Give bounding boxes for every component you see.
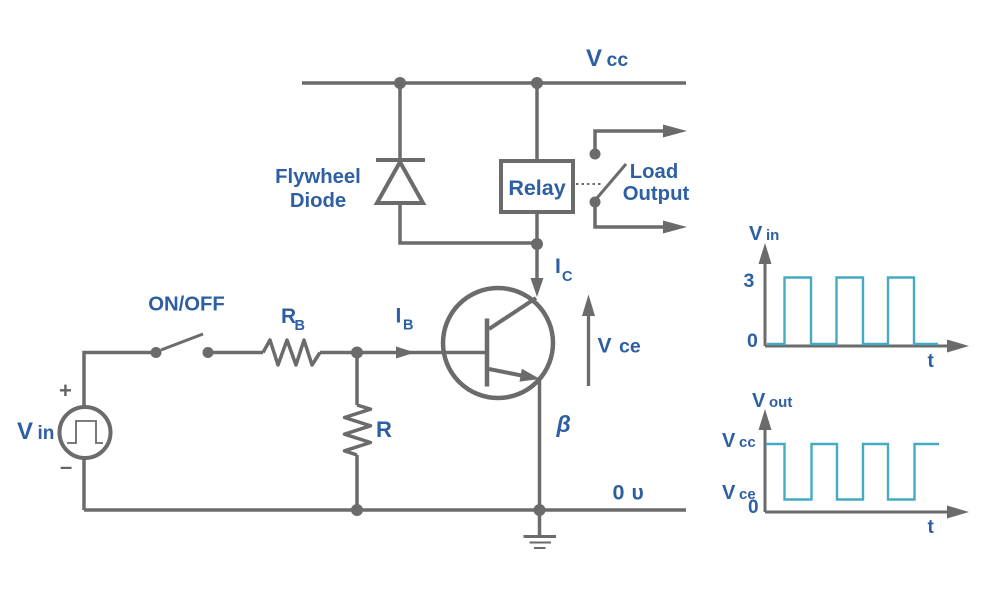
- wire: relay lower: [535, 212, 539, 243]
- graph1 waveform V in: [767, 278, 938, 345]
- source V1 pulse generator: [60, 407, 111, 458]
- resistor RB: [263, 340, 320, 365]
- svg-text:β: β: [556, 411, 571, 437]
- wire: switch to RB: [208, 351, 263, 355]
- switch ON/OFF: [151, 334, 214, 358]
- wire: RB to node: [320, 351, 357, 355]
- wire: diode branch upper: [398, 83, 402, 160]
- node: emitter-rail junction: [534, 504, 546, 516]
- svg-text:υ: υ: [632, 482, 644, 505]
- graph2 label V out: [752, 390, 792, 412]
- node: rail-diode junction: [394, 77, 406, 89]
- label Flywheel Diode: [275, 166, 361, 212]
- arrowhead load lower: [663, 221, 687, 234]
- label V ce: [598, 335, 641, 358]
- relay K1 box: [501, 161, 573, 212]
- node: R-rail junction: [351, 504, 363, 516]
- resistor R: [345, 405, 371, 455]
- label V in: [17, 418, 54, 445]
- graph2 y-axis: [759, 409, 772, 512]
- wire: source to switch: [84, 353, 156, 408]
- svg-text:I: I: [396, 305, 402, 328]
- svg-text:V: V: [752, 390, 766, 412]
- label I_B: [396, 305, 414, 334]
- wire: Vcc top rail: [302, 81, 686, 85]
- graph1 label V in: [749, 223, 779, 245]
- wire: base: [357, 351, 485, 355]
- svg-text:Load: Load: [630, 161, 678, 183]
- svg-text:V: V: [17, 418, 33, 445]
- node: diode-collector junction: [531, 238, 543, 250]
- svg-text:B: B: [403, 318, 413, 334]
- arrowhead I_C down: [531, 278, 544, 297]
- wire: source to 0V rail: [82, 458, 86, 510]
- svg-text:B: B: [295, 318, 305, 334]
- relay switch contacts: [590, 149, 627, 208]
- graph1 y-axis: [759, 243, 772, 346]
- svg-text:V: V: [722, 482, 736, 504]
- graph2 waveform V out: [766, 444, 939, 500]
- svg-text:I: I: [555, 255, 561, 278]
- svg-text:ce: ce: [619, 336, 641, 358]
- svg-text:Relay: Relay: [508, 176, 565, 200]
- svg-text:R: R: [376, 417, 392, 442]
- wire: load output lower: [595, 207, 664, 227]
- wire: R upper lead: [355, 353, 359, 406]
- label 0 v: [613, 481, 644, 505]
- graph2 label V ce: [722, 482, 756, 504]
- svg-text:Diode: Diode: [290, 190, 346, 212]
- svg-text:V: V: [722, 430, 736, 452]
- svg-text:–: –: [60, 454, 72, 479]
- wire: diode branch lower elbow: [400, 203, 537, 243]
- wire: 0V bottom rail: [84, 508, 686, 512]
- wire: collector from junction: [535, 243, 539, 281]
- svg-text:0: 0: [748, 497, 759, 518]
- wire: emitter: [538, 380, 542, 510]
- ground: [524, 510, 557, 548]
- arrowhead I_B: [396, 347, 415, 359]
- svg-text:in: in: [766, 227, 779, 244]
- transistor Q1: [443, 288, 553, 398]
- svg-text:V: V: [586, 45, 602, 72]
- svg-text:Flywheel: Flywheel: [275, 166, 361, 188]
- svg-text:C: C: [562, 269, 573, 285]
- svg-text:ON/OFF: ON/OFF: [148, 294, 225, 316]
- svg-text:in: in: [38, 423, 55, 444]
- wire: load output upper: [595, 131, 664, 149]
- svg-text:V: V: [749, 223, 763, 245]
- graph2 x-axis: [765, 506, 969, 519]
- svg-text:out: out: [769, 394, 792, 411]
- label I_C: [555, 255, 573, 285]
- label V cc: [586, 45, 628, 72]
- dotted link relay to contact: [576, 183, 603, 185]
- wire: relay upper: [535, 83, 539, 161]
- label R_B: [281, 305, 305, 334]
- arrow V_ce: [582, 295, 595, 387]
- svg-text:cc: cc: [739, 434, 756, 451]
- svg-text:0: 0: [613, 481, 625, 505]
- node: base junction: [351, 347, 363, 359]
- svg-text:0: 0: [747, 330, 758, 352]
- svg-text:V: V: [598, 335, 612, 358]
- diode D1 flywheel: [376, 160, 425, 203]
- svg-text:t: t: [928, 351, 935, 372]
- graph2 label V cc: [722, 430, 756, 452]
- graph1 x-axis: [765, 340, 969, 353]
- svg-text:t: t: [928, 517, 935, 538]
- svg-text:cc: cc: [607, 49, 629, 71]
- label Load Output: [623, 161, 690, 205]
- wire: R lower lead: [355, 455, 359, 510]
- svg-text:Output: Output: [623, 183, 690, 205]
- svg-text:+: +: [59, 378, 72, 403]
- node: rail-relay junction: [531, 77, 543, 89]
- arrowhead load upper: [663, 125, 687, 138]
- svg-text:3: 3: [744, 270, 755, 292]
